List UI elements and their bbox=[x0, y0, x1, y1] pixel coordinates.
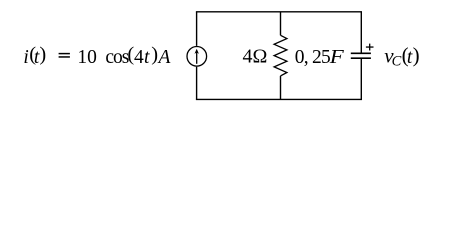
svg-text:cos: cos bbox=[105, 47, 128, 68]
wire top rail bbox=[196, 11, 362, 13]
svg-text:): ) bbox=[413, 43, 420, 67]
wire middle branch lower bbox=[280, 76, 282, 100]
capacitor polarity plus sign bbox=[366, 44, 374, 51]
wire right branch lower bbox=[360, 58, 362, 99]
svg-text:): ) bbox=[39, 43, 46, 65]
wire right branch upper bbox=[360, 12, 362, 54]
svg-text:F: F bbox=[329, 47, 345, 68]
svg-text:t: t bbox=[144, 47, 150, 68]
label 0,25 F bbox=[295, 47, 345, 68]
svg-text:4: 4 bbox=[134, 47, 144, 68]
current source I1 circle bbox=[187, 47, 207, 67]
resistor R1 zigzag bbox=[274, 35, 287, 76]
label i(t) = 10 cos(4t) A bbox=[23, 43, 170, 68]
svg-text:): ) bbox=[151, 43, 158, 65]
wire middle branch upper bbox=[280, 12, 282, 36]
current source I1 arrow bbox=[195, 49, 199, 64]
wire left branch lower bbox=[196, 67, 198, 100]
svg-text:C: C bbox=[392, 53, 402, 69]
wire bottom rail bbox=[196, 98, 362, 100]
label vC(t) bbox=[384, 43, 419, 70]
svg-text:4Ω: 4Ω bbox=[243, 45, 268, 67]
svg-text:i: i bbox=[23, 47, 28, 68]
svg-text:10: 10 bbox=[77, 47, 97, 68]
capacitor C1 top plate bbox=[351, 52, 371, 54]
svg-text:A: A bbox=[157, 47, 171, 68]
capacitor C1 bottom plate bbox=[351, 57, 371, 59]
wire left branch upper bbox=[196, 12, 198, 46]
svg-text:0, 25: 0, 25 bbox=[295, 47, 330, 68]
